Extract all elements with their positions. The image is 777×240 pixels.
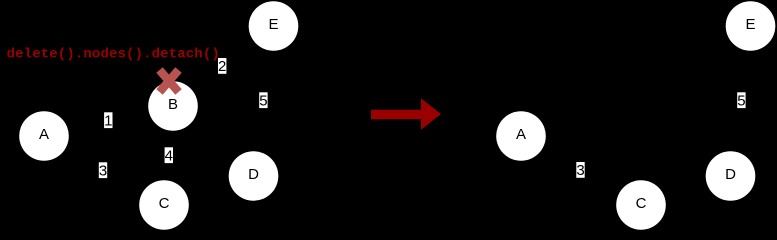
edge weight label 4 (B-C) bbox=[165, 147, 173, 164]
wire: edge E-D (left) bbox=[254, 26, 274, 176]
svg-text:5: 5 bbox=[737, 92, 745, 109]
svg-text:4: 4 bbox=[165, 147, 173, 164]
wire: edge A-C (right) bbox=[521, 136, 641, 205]
wire: edge A-C (left) bbox=[44, 136, 164, 205]
svg-text:B: B bbox=[168, 96, 178, 113]
node A (right) bbox=[496, 111, 546, 161]
wire: edge E-D (right) bbox=[731, 26, 751, 176]
svg-text:5: 5 bbox=[259, 92, 267, 109]
wire: edge B-C (left) bbox=[164, 106, 173, 205]
svg-text:E: E bbox=[745, 16, 755, 33]
svg-text:D: D bbox=[248, 166, 259, 183]
node C (left) bbox=[139, 180, 189, 230]
edge weight label 3 (A-C, right) bbox=[576, 162, 584, 179]
svg-text:3: 3 bbox=[99, 162, 107, 179]
wire: edge B-E (left) bbox=[173, 26, 274, 106]
edge weight label 5 (E-D) bbox=[259, 92, 267, 109]
svg-text:A: A bbox=[516, 126, 526, 143]
node D (left) bbox=[229, 151, 279, 201]
edge weight label 1 (A-B) bbox=[104, 112, 112, 129]
edge weight label 2 (B-E) bbox=[218, 58, 226, 75]
svg-text:C: C bbox=[636, 195, 647, 212]
svg-text:A: A bbox=[39, 126, 49, 143]
delete marker X over node B bbox=[160, 70, 179, 92]
svg-text:3: 3 bbox=[576, 162, 584, 179]
node A (left) bbox=[19, 111, 69, 161]
node E (left) bbox=[249, 1, 299, 51]
arrow (left graph to right graph) bbox=[371, 98, 441, 130]
node D (right) bbox=[706, 151, 756, 201]
edge weight label 5 (E-D, right) bbox=[737, 92, 745, 109]
node C (right) bbox=[616, 180, 666, 230]
edge weight label 3 (A-C) bbox=[99, 162, 107, 179]
svg-text:delete().nodes().detach(): delete().nodes().detach() bbox=[7, 47, 220, 63]
svg-text:E: E bbox=[268, 16, 278, 33]
svg-text:C: C bbox=[159, 195, 170, 212]
svg-text:1: 1 bbox=[104, 112, 112, 129]
wire: edge A-B (left) bbox=[44, 106, 173, 136]
node B (left) bbox=[148, 81, 198, 131]
node E (right) bbox=[726, 1, 776, 51]
svg-text:D: D bbox=[725, 166, 736, 183]
